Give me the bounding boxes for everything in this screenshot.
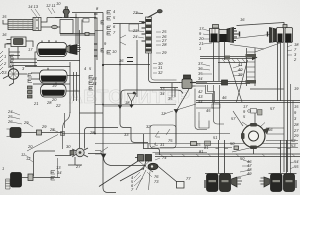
frame edge hatch	[0, 51, 3, 74]
svg-text:15: 15	[2, 14, 7, 19]
compressor block	[8, 20, 33, 30]
valve nozzles	[142, 23, 146, 42]
junction dots	[94, 133, 96, 135]
pipe loop box	[150, 125, 176, 148]
wire long horizontal y143	[95, 143, 298, 145]
valve side box	[129, 24, 139, 31]
fork bracket bottom-left	[51, 171, 55, 181]
wire diagonal junction pipe	[176, 89, 189, 143]
svg-text:11: 11	[21, 152, 25, 157]
wire vertical x33 riser	[34, 151, 56, 177]
svg-text:15: 15	[196, 142, 201, 147]
svg-text:15: 15	[294, 104, 299, 109]
wire y108 stub	[196, 108, 214, 121]
label leaders bottom-center	[134, 111, 173, 186]
svg-text:14: 14	[57, 170, 62, 175]
front wheel unit left body	[210, 29, 228, 43]
wire trunk x120	[119, 24, 121, 108]
wire cluster lower	[68, 157, 82, 165]
svg-text:22: 22	[55, 103, 61, 108]
labels bottom-right	[196, 106, 299, 176]
svg-text:28: 28	[49, 127, 55, 132]
fork marks left column	[11, 55, 15, 68]
svg-text:20: 20	[27, 144, 33, 149]
svg-text:1: 1	[4, 54, 6, 59]
labels bottom-left	[2, 109, 95, 175]
wire low horizontals	[10, 59, 37, 66]
brake valve cluster bracket	[143, 149, 160, 156]
unloader governor	[5, 37, 26, 48]
tee fitting	[37, 130, 42, 135]
wire line 16 to front wheels	[237, 23, 285, 28]
svg-text:17: 17	[28, 47, 33, 52]
wire front left drops	[214, 41, 225, 81]
wire valve outlet down	[149, 62, 180, 83]
tee on long line	[61, 132, 65, 136]
junction y fitting low	[101, 154, 105, 158]
svg-text:16: 16	[2, 32, 7, 37]
wire front right drops	[278, 42, 288, 172]
svg-text:45: 45	[206, 108, 211, 113]
wire cluster horizontal	[55, 154, 102, 156]
wire horizontal y113	[80, 112, 104, 114]
svg-text:34: 34	[92, 81, 97, 86]
svg-text:81: 81	[199, 149, 203, 154]
wire bottom-left risers	[57, 158, 59, 178]
svg-text:77: 77	[186, 176, 191, 181]
wire head to elbow	[41, 18, 47, 23]
label leaders valve	[138, 31, 161, 73]
svg-text:29: 29	[293, 133, 299, 138]
svg-text:29: 29	[161, 50, 167, 55]
wire loop corner pipe	[121, 90, 183, 105]
tie rod V diagonals	[229, 60, 248, 102]
wire diag fan mid	[120, 168, 144, 181]
label leaders bottom-left	[12, 112, 58, 162]
svg-text:4: 4	[154, 142, 156, 146]
safety vase body	[63, 7, 70, 18]
rear spring hanger right	[278, 140, 291, 173]
svg-text:28: 28	[89, 130, 95, 135]
label leaders bottom-right	[238, 160, 294, 177]
wire delivery upper	[47, 17, 96, 19]
label leaders right	[202, 29, 292, 76]
svg-text:32: 32	[158, 70, 163, 75]
svg-text:36: 36	[119, 58, 124, 63]
svg-text:49: 49	[247, 171, 252, 176]
svg-text:13: 13	[34, 4, 39, 9]
svg-text:30: 30	[66, 144, 71, 149]
pressure gauge	[8, 67, 18, 80]
svg-text:57: 57	[231, 116, 236, 121]
svg-text:23: 23	[132, 28, 138, 33]
air dryer outline box	[60, 20, 73, 34]
wire right vertical x290	[291, 84, 294, 176]
wire right of valve doubles	[160, 83, 178, 97]
air tank 3	[41, 82, 67, 97]
compressor head	[33, 18, 41, 31]
svg-text:26: 26	[7, 119, 13, 124]
wire between tanks	[33, 83, 70, 85]
wire junction dot	[102, 64, 104, 66]
wire riser from cluster	[144, 134, 149, 149]
svg-text:75: 75	[168, 138, 173, 143]
svg-text:19: 19	[294, 86, 299, 91]
intake fitting cluster above circle	[248, 109, 262, 125]
wire center loop	[120, 108, 148, 143]
svg-text:73: 73	[154, 179, 159, 184]
steering drag link	[190, 80, 250, 85]
wire bottom horizontal y177	[33, 177, 60, 179]
svg-text:21: 21	[33, 101, 38, 106]
svg-text:1: 1	[199, 46, 201, 51]
wire left drop column	[9, 48, 20, 68]
svg-text:53: 53	[291, 143, 296, 148]
wire tank2 output	[67, 75, 80, 77]
svg-text:16: 16	[240, 17, 245, 22]
wire diag fan right	[157, 165, 178, 182]
labels right top	[198, 17, 299, 104]
wire fitting on y147	[191, 142, 197, 146]
wire right horizontals	[196, 89, 300, 103]
trailer brake valve	[179, 75, 207, 130]
wire bottom-left chamber upper body	[7, 128, 39, 138]
svg-text:51: 51	[213, 135, 217, 140]
svg-text:23: 23	[1, 70, 7, 75]
wire vertical pair mid	[70, 62, 77, 113]
steering ladder column	[246, 43, 281, 86]
paper background	[0, 0, 300, 195]
svg-text:28: 28	[161, 42, 167, 47]
wire small fitting right rail	[234, 146, 239, 150]
wire tank3 output	[66, 90, 80, 92]
fitting on rail line	[205, 141, 211, 146]
svg-text:29: 29	[23, 120, 29, 125]
wire trunk x103 full	[103, 13, 116, 193]
air tank 2	[31, 68, 67, 83]
svg-text:39: 39	[238, 72, 243, 77]
brake valve nozzle	[113, 22, 145, 24]
wire frame pipes down	[214, 85, 225, 140]
wire governor to tank	[18, 41, 33, 59]
wire long horizontal y147	[160, 147, 298, 149]
svg-text:19: 19	[52, 83, 57, 88]
wire delivery second	[72, 13, 143, 14]
svg-text:34: 34	[198, 76, 203, 81]
small fitting right of cluster	[95, 147, 108, 154]
svg-text:56: 56	[268, 127, 273, 132]
labels center	[92, 6, 167, 105]
chassis rail double	[155, 154, 300, 157]
svg-text:27: 27	[75, 164, 81, 169]
svg-text:50: 50	[230, 141, 235, 146]
wire diag from 16	[230, 33, 283, 49]
svg-text:57: 57	[270, 106, 275, 111]
wire diagonal leader 29	[27, 135, 58, 152]
front axle beam with arrow	[200, 55, 258, 63]
junction y-fitting mid	[174, 110, 178, 114]
wire gauge to valves	[3, 74, 27, 86]
label leaders top-left	[31, 8, 55, 17]
svg-text:46: 46	[222, 95, 227, 100]
valve ticks on trunk	[94, 14, 98, 56]
chevron marks on y64 line	[127, 58, 133, 62]
wire from junction diag	[177, 104, 197, 110]
wire tank1 left drop	[35, 52, 38, 67]
wire dryer bottom double	[60, 34, 95, 36]
svg-text:35: 35	[168, 96, 173, 101]
wire stepped pipe	[206, 85, 215, 102]
wire right horizontal y140.5	[266, 140, 298, 142]
wire head low outlet	[41, 26, 60, 28]
brake valve lever	[148, 10, 163, 18]
svg-text:1: 1	[2, 166, 4, 171]
svg-text:24: 24	[132, 34, 138, 39]
protective valve round	[70, 148, 88, 157]
wire x120 branches	[120, 35, 126, 45]
wire to center	[42, 132, 63, 134]
svg-text:28: 28	[46, 100, 52, 105]
front wheel unit right body	[268, 25, 293, 43]
wire diag fan extra	[136, 170, 150, 190]
funnel filter valve	[128, 92, 137, 108]
rear wheel drums left	[205, 174, 242, 192]
air tank 1 condensation	[37, 40, 67, 57]
svg-text:12: 12	[46, 3, 51, 8]
bottom-left front chamber	[6, 173, 29, 190]
u-pipe fitting	[199, 121, 209, 129]
wire compressor inlet	[3, 20, 8, 24]
rear spring hanger left	[216, 140, 229, 173]
svg-text:20: 20	[51, 97, 57, 102]
wire short h30	[95, 30, 103, 32]
wire valve second outlet	[151, 53, 177, 80]
svg-text:44: 44	[198, 99, 203, 104]
front wheel unit left cap	[213, 25, 219, 29]
svg-text:28: 28	[293, 122, 299, 127]
wire diag fan left	[99, 161, 138, 187]
wire x137 vertical	[136, 40, 138, 97]
svg-text:31: 31	[160, 142, 164, 147]
wire center trunk pair	[95, 13, 97, 135]
svg-text:74: 74	[162, 155, 167, 160]
svg-text:10: 10	[56, 1, 61, 6]
elbow fitting	[28, 174, 33, 181]
rear wheel drums right	[260, 174, 297, 192]
wire long horizontal y133.5	[62, 133, 230, 135]
svg-text:55: 55	[294, 164, 299, 169]
wire verticals to regulator	[76, 14, 82, 45]
brake valve body	[146, 17, 152, 62]
labels 14 13 12 11	[2, 1, 61, 66]
wire main left trunk	[79, 30, 81, 151]
wire under tank1 double	[25, 61, 80, 67]
paper grain overlay	[0, 0, 300, 195]
wire small fitting on 34	[85, 33, 89, 36]
wire vase base line	[55, 17, 77, 19]
fork stack mid	[89, 76, 93, 91]
intake diagonal	[233, 111, 243, 126]
pedal linkage	[143, 161, 153, 172]
brake valve two-chamber	[135, 155, 152, 162]
svg-text:32: 32	[146, 124, 151, 129]
small fitting under line	[83, 19, 89, 23]
labels left-mid	[1, 66, 57, 106]
svg-text:29: 29	[41, 124, 47, 129]
front brake chamber left	[227, 28, 240, 43]
wire left branch to cluster	[85, 128, 119, 149]
fork connector stack top-center	[101, 11, 111, 55]
spare wheel circle	[241, 122, 270, 149]
wire curve to brake cluster	[104, 157, 147, 166]
wire junction y fitting	[119, 106, 122, 109]
svg-text:14: 14	[28, 4, 33, 9]
wire rear interconnect	[232, 147, 254, 152]
small box bottom	[177, 182, 185, 189]
fork valve column	[28, 74, 33, 99]
svg-text:33: 33	[124, 132, 129, 137]
fitting small box	[212, 104, 220, 108]
svg-text:22: 22	[132, 10, 138, 15]
wire double horizontal y104	[95, 105, 176, 107]
svg-text:18: 18	[125, 100, 130, 105]
wire curve from tanks down	[63, 112, 71, 149]
wire rear axle stubs	[205, 173, 297, 175]
wire horizontal y64 double	[103, 64, 150, 66]
labels bottom-center	[124, 111, 191, 192]
brake valve lower oval	[148, 163, 158, 169]
svg-text:34: 34	[160, 91, 165, 96]
pressure regulator assembly	[66, 45, 81, 55]
svg-text:10: 10	[112, 49, 117, 54]
wire right horizontals y128 y134	[266, 128, 284, 134]
wire circle stem	[253, 149, 255, 155]
svg-text:81: 81	[204, 145, 208, 150]
oval fitting	[52, 25, 58, 28]
